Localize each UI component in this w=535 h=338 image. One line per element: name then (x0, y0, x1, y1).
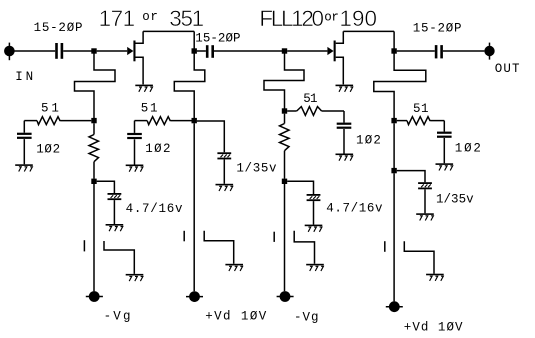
wire node C to Q2 gate (287, 50, 327, 52)
svg-text:15-2ØP: 15-2ØP (195, 31, 240, 45)
resistor R3 51 (135, 117, 192, 125)
wire C10 to ground (443, 138, 445, 163)
node A junction (91, 48, 96, 53)
wire stage1 drain load staircase (174, 53, 205, 118)
svg-text:1/35v: 1/35v (436, 192, 474, 206)
wire down to node B (193, 31, 195, 49)
node F junction (91, 179, 96, 184)
node E junction (gate bias 1) (91, 118, 96, 123)
chassis ground (stage2 drain) (426, 274, 444, 281)
svg-text:351: 351 (169, 6, 204, 31)
wire node K branch to C11 (397, 171, 425, 183)
svg-text:1Ø2: 1Ø2 (36, 143, 60, 157)
svg-text:4.7/16v: 4.7/16v (126, 202, 183, 216)
svg-text:1Ø2: 1Ø2 (455, 142, 481, 156)
chassis ground (stage 2) (306, 264, 324, 271)
node K junction (391, 168, 396, 173)
ground at Q2 source (336, 85, 354, 92)
chassis ground (stage1 drain) (225, 264, 243, 271)
node G junction (drain load 1) (192, 118, 197, 123)
ground below C9 (305, 225, 323, 232)
terminal -Vg (stage 2) (277, 291, 294, 302)
wire node F to C3 (97, 181, 115, 193)
wire C4 to node C (214, 50, 285, 52)
svg-text:OUT: OUT (495, 62, 520, 76)
node D junction (391, 48, 396, 53)
wire R6 to C10 (443, 121, 445, 132)
wire C2 to ground (23, 139, 25, 164)
wire node F to -Vg terminal (93, 184, 95, 291)
capacitor C6 1/35v (electrolytic) (217, 152, 231, 159)
svg-text:51: 51 (413, 102, 429, 116)
capacitor C5 102 (127, 133, 142, 139)
svg-text:190: 190 (339, 6, 377, 31)
tick mark near stage1 (83, 240, 85, 251)
wire IN to C1 (14, 50, 55, 52)
ground below C10 (436, 163, 454, 170)
wire node B to C4 (197, 50, 206, 52)
tick mark near stage2 (273, 232, 275, 242)
wire down to node D (393, 31, 395, 49)
node H junction (gate bias 2) (282, 108, 287, 113)
capacitor C8 102 (337, 123, 352, 129)
tick mark near stage1 drain column (183, 231, 185, 242)
wire Q2 drain to node D (343, 30, 394, 32)
resistor R6 51 (397, 117, 445, 125)
wire stage2 gate bias staircase (264, 53, 304, 109)
ground below C6 (216, 184, 234, 191)
wire stub to chassis ground (stage 2) (294, 231, 314, 264)
capacitor C3 4.7/16v (electrolytic) (108, 193, 122, 200)
terminal +Vd (stage 1) (186, 291, 203, 302)
wire R1 to C2 (23, 121, 25, 133)
resistor R4 51 (287, 107, 344, 116)
wire stage1 gate bias staircase (75, 53, 116, 118)
svg-text:1Ø2: 1Ø2 (356, 133, 381, 147)
svg-text:51: 51 (303, 92, 317, 106)
transistor Q1 (171 or 351) (127, 31, 143, 84)
ground at Q1 source (135, 85, 153, 92)
capacitor C7 15-20P (435, 45, 443, 58)
svg-text:-Vg: -Vg (104, 309, 131, 323)
wire C9 to ground (313, 201, 315, 225)
svg-text:171: 171 (99, 6, 136, 31)
resistor R5 (gate leak 2, vertical) (280, 114, 290, 179)
node B junction (192, 48, 197, 53)
capacitor C1 15-20P (55, 43, 63, 59)
wire node D to C7 (397, 50, 435, 52)
terminal IN (4, 43, 15, 61)
tick mark near stage2 drain column (384, 241, 386, 252)
node J junction (drain load 2) (391, 118, 396, 123)
wire C5 to ground (134, 139, 136, 164)
wire C3 to ground (113, 200, 115, 224)
transistor Q2 (FLL120 or 190) (327, 31, 343, 84)
wire node A to Q1 gate (97, 50, 128, 52)
resistor R2 (gate leak, vertical) (89, 123, 99, 178)
wire C11 to ground (424, 189, 426, 213)
terminal -Vg (stage 1) (86, 291, 103, 302)
wire C1 to node A (63, 50, 94, 52)
capacitor C9 4.7/16v (electrolytic) (307, 194, 321, 201)
wire R3 to C5 (134, 121, 136, 133)
svg-text:-Vg: -Vg (294, 311, 319, 325)
wire C6 to ground (223, 159, 225, 183)
capacitor C10 102 (437, 132, 452, 138)
wire Q1 drain to node B (143, 30, 194, 32)
svg-text:or: or (142, 10, 158, 24)
wire stage2 drain load staircase (374, 53, 426, 118)
wire node K to +Vd terminal (stage 2) (393, 173, 395, 301)
svg-text:15-2ØP: 15-2ØP (34, 21, 83, 35)
capacitor C2 102 (17, 133, 32, 139)
ground below C11 (416, 213, 434, 220)
wire node I to -Vg terminal (stage 2) (284, 184, 286, 291)
wire R4 to C8 (343, 111, 345, 123)
capacitor C11 1/35v (electrolytic) (418, 182, 432, 189)
capacitor C4 15-20P (206, 45, 214, 58)
wire stub to chassis ground (stage2 drain) (404, 241, 434, 274)
svg-text:15-2ØP: 15-2ØP (413, 21, 462, 35)
ground below C3 (106, 224, 124, 231)
svg-text:FLL120: FLL120 (259, 6, 324, 31)
wire node I to C9 (287, 181, 313, 194)
svg-text:+Vd 1ØV: +Vd 1ØV (404, 321, 463, 335)
ground below C2 (15, 164, 33, 171)
wire C7 to OUT (443, 50, 485, 52)
wire node G branch to C6 (197, 121, 224, 152)
node I junction (282, 179, 287, 184)
svg-text:1/35v: 1/35v (236, 161, 277, 175)
wire node G to +Vd terminal (193, 123, 195, 291)
wire node J down to node K (393, 123, 395, 168)
wire C8 to ground (343, 129, 345, 154)
node C junction (282, 48, 287, 53)
svg-text:or: or (324, 10, 339, 24)
chassis ground (stage 1) (126, 274, 144, 281)
svg-text:4.7/16v: 4.7/16v (326, 201, 383, 215)
terminal +Vd (stage 2) (386, 301, 403, 312)
ground below C5 (126, 165, 144, 172)
ground below C8 (336, 154, 354, 161)
svg-text:51: 51 (141, 102, 158, 116)
svg-text:1Ø2: 1Ø2 (145, 142, 170, 156)
resistor R1 51 (24, 117, 91, 125)
wire stub to chassis ground (stage 1) (104, 241, 134, 274)
wire stub to chassis ground (stage1 drain) (204, 231, 234, 264)
terminal OUT (484, 43, 494, 60)
